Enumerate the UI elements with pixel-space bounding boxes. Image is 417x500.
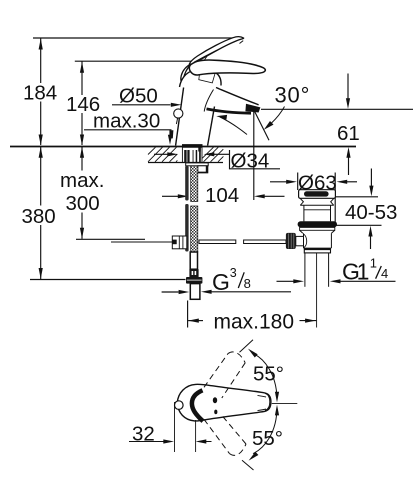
arrow 380 down (39, 268, 43, 279)
svg-text:104: 104 (205, 184, 239, 207)
knob stem (296, 236, 304, 245)
dimension 184 line upper (40, 38, 42, 83)
dim 32 arrowhead right (163, 439, 174, 443)
top view lever tip inner line upper (258, 395, 267, 397)
dimension 184 line lower (40, 102, 42, 146)
arrow 104 pointing-left (254, 194, 265, 198)
dashed lever up left edge (204, 354, 228, 388)
svg-text:Ø34: Ø34 (231, 149, 270, 172)
drain body (303, 233, 305, 248)
arrow Ø63 pointing-left (337, 180, 348, 184)
pop-up rod vertical lower (185, 204, 188, 252)
dimension 61 arrow shafts (347, 74, 349, 100)
aerator tip face (245, 104, 260, 113)
dim 32 underline (129, 441, 164, 443)
dimension 146 line upper (81, 61, 83, 95)
rod coupler (172, 236, 187, 249)
arrow 146 up (80, 62, 84, 73)
spout bottom heavy edge (207, 109, 252, 113)
svg-text:Ø50: Ø50 (119, 84, 158, 107)
max.30 leader drop (169, 130, 171, 136)
G38 slash (238, 272, 244, 288)
threaded shank block (182, 147, 202, 162)
dome inner parallelogram (199, 70, 215, 83)
top view lever tip inner line lower (258, 409, 267, 411)
rod knob ridges (289, 234, 294, 249)
30deg arrowhead right (264, 121, 274, 130)
lever blade inner line (194, 41, 237, 62)
dimension texts (22, 82, 398, 451)
max.30 leader underline (84, 129, 172, 131)
dashed lever down cap (230, 444, 247, 455)
arc 55 bottom arrowhead upper (275, 405, 279, 416)
dashed lever up right edge (222, 363, 245, 398)
drain rim (299, 190, 336, 199)
arrow 184 up (39, 39, 43, 50)
gasket reference line (334, 224, 382, 226)
arrow max180 pointing-left (188, 319, 199, 323)
lever blade (189, 37, 243, 65)
tube below nut (190, 284, 200, 300)
svg-text:4: 4 (381, 266, 388, 281)
body left edge (176, 88, 184, 146)
dashed lever down right edge (221, 414, 247, 444)
braided hose lower (191, 206, 198, 252)
arrow max30 down (168, 135, 172, 145)
G 3/8 left arrow tail (162, 291, 179, 293)
arrow 61 up (346, 147, 350, 158)
drain gasket (298, 221, 337, 227)
Ø34 frame (230, 150, 281, 169)
svg-text:1: 1 (370, 256, 377, 271)
drain upper cylinder (303, 205, 305, 221)
drain hole dark band (304, 191, 329, 196)
drain centerline (316, 253, 318, 328)
svg-text:1: 1 (357, 258, 370, 284)
arrow 380 up (39, 147, 43, 158)
30deg arrowhead left (216, 115, 227, 120)
arc 55 top arrowhead lower (275, 392, 279, 403)
dim 32 arrowhead left (196, 439, 207, 443)
svg-text:8: 8 (244, 276, 251, 291)
svg-text:30°: 30° (275, 83, 311, 108)
arrow max180 pointing-right (305, 319, 316, 323)
pop-up rod vertical upper (185, 166, 188, 201)
deck line top (10, 146, 356, 148)
locknut block right of hose (198, 166, 208, 173)
arc 55 bottom (253, 407, 277, 454)
svg-text:55°: 55° (252, 427, 283, 450)
svg-text:184: 184 (23, 82, 57, 105)
G38 nut (186, 277, 202, 284)
arrowheads group (39, 39, 374, 323)
drain flange (300, 227, 335, 230)
30deg curved arrow right (272, 107, 285, 124)
arrow Ø63 pointing-right (286, 180, 297, 184)
dim 32 extension line right (195, 420, 197, 452)
arrow 40-53 down (369, 186, 373, 197)
braided hose upper (191, 166, 198, 202)
tangent extension up (240, 340, 254, 353)
hose end tube (190, 252, 197, 269)
dashed lever up cap (228, 352, 245, 363)
arrow 146 down (80, 135, 84, 146)
rod knob (286, 233, 296, 249)
dimension max300 line lower (81, 213, 83, 239)
dimension 40-53 arrow shafts (370, 169, 372, 188)
svg-text:3: 3 (230, 266, 237, 280)
arc 55 bottom arrowhead lower (249, 452, 259, 461)
dashed lever down left edge (204, 419, 230, 453)
30 degree stream line (255, 111, 270, 140)
body right edge (208, 107, 215, 146)
reference line lever rest height (146) (75, 60, 230, 62)
bottom reference line (380) (30, 279, 186, 281)
top view dot 1 (213, 397, 217, 403)
tailpipe right edge (328, 253, 330, 287)
top view small circle (175, 401, 184, 410)
deck line bottom (148, 162, 223, 164)
Ø63 extension line left (297, 173, 299, 191)
arrow G38 pointing-left (201, 290, 212, 294)
drain flange taper (300, 230, 335, 248)
reference line top of lever (184) (33, 37, 240, 39)
Ø63 arrows tails (270, 181, 287, 183)
G 3/8 label underline / right arrow tail (212, 291, 292, 293)
lever base edge (201, 56, 208, 72)
arrow max300 up (80, 147, 84, 158)
30deg curved arrow left (220, 117, 247, 135)
centerline right of lever (272, 402, 298, 404)
lever front loop (189, 60, 265, 75)
dimension 380 line lower (40, 225, 42, 279)
svg-text:380: 380 (22, 205, 56, 228)
deck hatching right (202, 147, 223, 162)
spout tip extension line (253, 111, 255, 200)
104 arrows tails (162, 195, 178, 197)
arrow 61 down (346, 98, 350, 109)
max300 bottom tick line (76, 238, 145, 240)
dim 32 second arrow tail (206, 441, 212, 443)
dim 32 extension line left (174, 402, 176, 452)
G 1 1/4 left arrow tail (277, 280, 294, 282)
svg-text:32: 32 (132, 423, 155, 446)
tangent extension down (242, 460, 254, 470)
svg-text:max.30: max.30 (93, 110, 160, 133)
max.180 dimension line (188, 320, 203, 322)
Ø63 extension line right (334, 173, 336, 223)
lever blade tip notch (240, 41, 244, 44)
svg-text:max.180: max.180 (214, 310, 295, 333)
lever back hook (181, 64, 191, 85)
side detail tag (170, 130, 174, 138)
Ø50 leader underline (112, 104, 171, 106)
drain body arc (304, 234, 307, 247)
svg-text:55°: 55° (253, 363, 284, 386)
tailpipe left edge (304, 253, 306, 287)
horizontal rod segment 1 (199, 240, 236, 244)
arrow G38 pointing-right (179, 290, 190, 294)
spout outlet reference line (261, 108, 413, 110)
dimension 380 line upper (40, 147, 42, 206)
deck hatching left (148, 147, 177, 162)
drain bottom ring (304, 248, 330, 253)
spout top edge (216, 88, 259, 105)
arrow max300 down (80, 228, 84, 239)
dome cap (180, 69, 222, 87)
arrow G114 pointing-left (330, 279, 341, 283)
Ø34 arrows tails (154, 153, 168, 155)
max.180 extension line left (187, 301, 189, 328)
arrow G114 pointing-right (293, 279, 304, 283)
dimension 146 line lower (81, 113, 83, 145)
top view dot 2 (214, 410, 217, 415)
top view lever tip inner cap (265, 393, 270, 410)
body-spout transition arc (204, 90, 213, 112)
drain neck (300, 198, 334, 221)
washer under deck (186, 163, 209, 166)
arrow 40-53 up (368, 226, 372, 237)
base dark band (182, 144, 203, 146)
arc 55 top arrowhead upper (248, 349, 258, 358)
svg-text:max.: max. (60, 169, 104, 192)
dimension max300 line upper (81, 147, 83, 171)
svg-text:40-53: 40-53 (345, 201, 397, 224)
svg-text:G: G (212, 269, 230, 295)
hose fitting block (189, 269, 198, 277)
arc 55 top (253, 354, 277, 401)
top view body outline (177, 384, 271, 421)
arrow Ø34 right-pointing-left (204, 152, 215, 156)
arrow 104 pointing-right (178, 194, 189, 198)
top view lever crescent (192, 390, 203, 421)
G 1 1/4 label underline with arrow tail (340, 280, 396, 282)
arrow 184 down (39, 135, 43, 146)
side detail tag line (176, 118, 177, 124)
horizontal rod segment 2 (244, 240, 286, 244)
svg-text:300: 300 (66, 192, 100, 215)
side detail circle (174, 109, 183, 118)
basin rim reference line (335, 196, 378, 198)
arrow Ø50 right (171, 103, 182, 107)
horizontal rod thin left (111, 241, 172, 243)
svg-text:61: 61 (337, 122, 360, 145)
arrow Ø34 left-pointing-right (167, 152, 178, 156)
G114 slash (376, 266, 382, 279)
